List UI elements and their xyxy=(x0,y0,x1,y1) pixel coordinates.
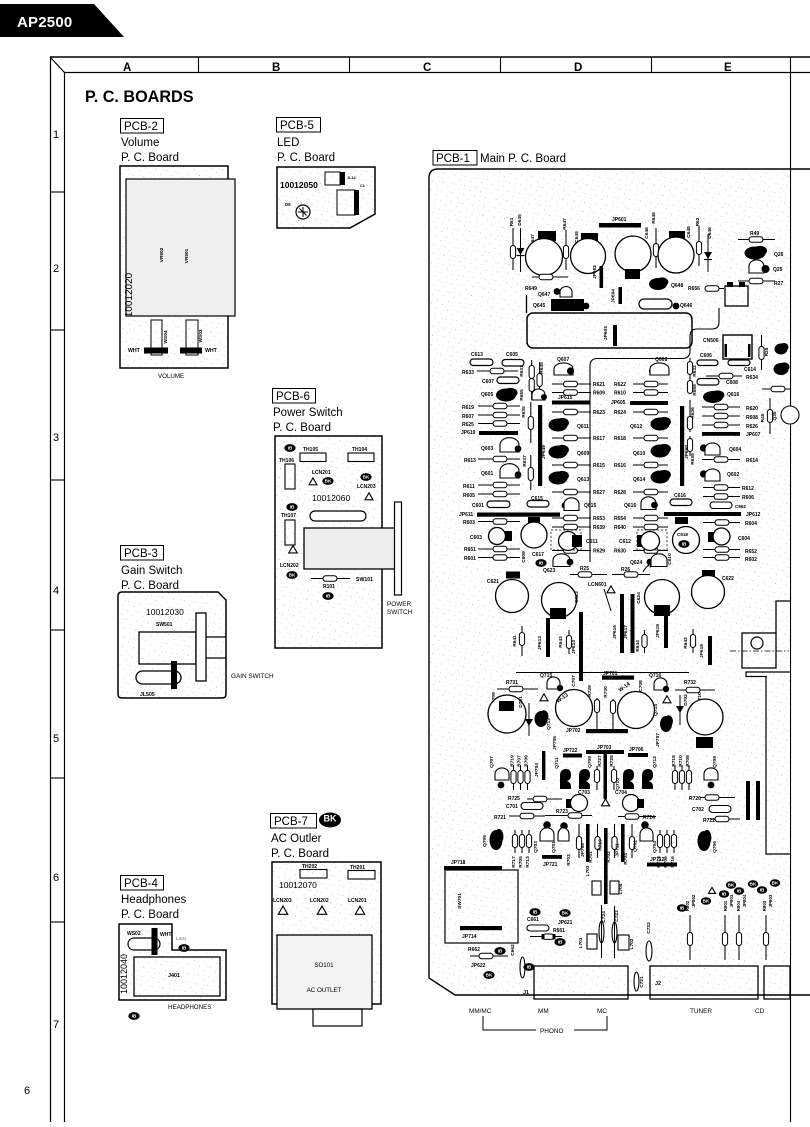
svg-text:1: 1 xyxy=(53,129,59,141)
transistor Q25 dot xyxy=(762,265,770,273)
resistor R608 xyxy=(702,413,740,419)
svg-text:PHONO: PHONO xyxy=(540,1028,563,1035)
triangle W-14 xyxy=(663,696,671,703)
jumper JP602 xyxy=(600,266,604,288)
capacitor C710 tab xyxy=(696,737,713,748)
transistor Q647 body xyxy=(560,287,572,298)
resistor R601 xyxy=(478,555,520,561)
marking IB C617 xyxy=(535,559,546,567)
svg-text:R618: R618 xyxy=(614,436,626,442)
svg-text:Q708: Q708 xyxy=(712,756,718,768)
transistor Q623 dot xyxy=(567,559,574,566)
svg-text:Q707: Q707 xyxy=(489,756,495,768)
svg-text:IB: IB xyxy=(527,965,532,970)
page banner AP2500 xyxy=(0,4,124,37)
svg-text:R729: R729 xyxy=(587,685,593,697)
capacitor C701 xyxy=(521,803,543,810)
svg-text:6: 6 xyxy=(53,872,59,884)
capacitor C609 tab xyxy=(528,517,540,524)
PCB-7 label box xyxy=(271,814,317,829)
resistor R603 xyxy=(478,519,520,525)
svg-text:Q712: Q712 xyxy=(652,756,658,768)
svg-text:BK: BK xyxy=(703,899,710,904)
resistor R723 xyxy=(545,813,592,819)
svg-text:D: D xyxy=(574,62,582,74)
svg-text:R61: R61 xyxy=(509,217,515,226)
svg-text:Q616: Q616 xyxy=(727,392,739,398)
capacitor C709 xyxy=(488,695,526,733)
svg-text:JP611: JP611 xyxy=(459,512,473,518)
border frame header bottom line xyxy=(64,72,810,74)
resistor R625 xyxy=(478,421,520,427)
column divider tick 2 xyxy=(349,57,351,73)
resistor R25 xyxy=(570,572,607,578)
resistor R612 xyxy=(703,485,740,491)
resistor R719 xyxy=(511,765,516,790)
transistor Q624 dot xyxy=(647,559,654,566)
transistor Q708 dot xyxy=(708,782,715,789)
resistor R717 xyxy=(512,830,517,853)
svg-text:R656: R656 xyxy=(688,286,700,292)
svg-text:R638: R638 xyxy=(690,453,696,465)
svg-text:R647: R647 xyxy=(562,218,568,230)
svg-text:PCB-6: PCB-6 xyxy=(276,391,310,403)
capacitor C623 xyxy=(542,583,577,618)
AC outlet SO101 body xyxy=(277,935,372,1009)
svg-text:JP605: JP605 xyxy=(611,400,626,406)
svg-text:R633: R633 xyxy=(462,370,474,376)
jumper JP703 xyxy=(586,750,624,754)
svg-text:L704: L704 xyxy=(618,883,624,894)
connector J1 body xyxy=(534,966,628,999)
resistor R28 xyxy=(759,335,764,370)
svg-text:10012060: 10012060 xyxy=(312,493,350,503)
jumper JP718 xyxy=(444,866,502,870)
thermistor TH104 body xyxy=(348,453,374,462)
resistor R710b xyxy=(595,824,600,858)
svg-text:R723: R723 xyxy=(556,809,568,815)
jumper JP712 xyxy=(647,863,677,867)
thermistor TH202 body xyxy=(300,870,327,879)
svg-text:6: 6 xyxy=(24,1085,30,1097)
svg-text:C601: C601 xyxy=(472,503,484,509)
resistor R645 xyxy=(537,362,542,395)
svg-text:P. C. Board: P. C. Board xyxy=(121,580,179,592)
transistor Q704 body xyxy=(640,828,653,841)
connector JL505 black bar xyxy=(171,661,177,689)
center vertical trace xyxy=(590,308,719,562)
svg-text:R625: R625 xyxy=(462,422,474,428)
svg-text:R615: R615 xyxy=(593,463,605,469)
resistor top mid xyxy=(532,274,568,280)
PHONO bracket xyxy=(483,1016,607,1030)
transformer W-14 xyxy=(618,692,655,729)
svg-text:LCN201: LCN201 xyxy=(348,898,367,904)
transistor Q616c body xyxy=(641,497,656,510)
resistor R614 xyxy=(702,457,740,463)
PCB-6 board outline xyxy=(275,436,382,648)
svg-text:10012020: 10012020 xyxy=(124,272,135,317)
svg-text:10012030: 10012030 xyxy=(146,607,184,617)
svg-text:R619: R619 xyxy=(462,405,474,411)
marking BK LCN202 xyxy=(286,571,297,579)
marking BK PCB-7 xyxy=(319,813,341,828)
transistor Q716 dot xyxy=(663,686,669,692)
resistor R638 xyxy=(687,436,692,456)
resistor R633 xyxy=(477,368,518,374)
svg-text:TUNER: TUNER xyxy=(690,1008,712,1015)
resistor R714 xyxy=(657,830,662,853)
capacitor C604 xyxy=(713,528,730,545)
svg-text:R707: R707 xyxy=(517,755,523,767)
svg-text:C608: C608 xyxy=(726,380,738,386)
svg-text:Q607: Q607 xyxy=(557,357,569,363)
svg-text:5: 5 xyxy=(53,733,59,745)
switch slot xyxy=(310,511,366,521)
svg-text:JP702: JP702 xyxy=(566,728,581,734)
resistor R636 xyxy=(687,400,692,432)
svg-text:C613: C613 xyxy=(471,352,483,358)
svg-text:E: E xyxy=(724,62,732,74)
svg-text:TH106: TH106 xyxy=(279,458,294,464)
svg-text:GAIN SWITCH: GAIN SWITCH xyxy=(231,673,274,680)
jumper JP660 xyxy=(680,406,684,486)
triangle W-13 xyxy=(540,694,548,701)
svg-text:JP612: JP612 xyxy=(746,512,761,518)
resistor R617 xyxy=(552,435,591,441)
capacitor C723 wire xyxy=(614,906,616,958)
svg-text:Q614: Q614 xyxy=(633,477,645,483)
border frame outer top line xyxy=(50,56,810,58)
transistor Q701 body xyxy=(558,828,569,841)
marking BK cluster 4 xyxy=(726,881,736,888)
svg-text:R639: R639 xyxy=(593,525,605,531)
svg-text:R661: R661 xyxy=(553,928,565,934)
svg-text:R651: R651 xyxy=(464,547,476,553)
resistor R651 xyxy=(478,546,520,552)
svg-text:JP615: JP615 xyxy=(558,395,573,401)
svg-text:IB: IB xyxy=(760,888,765,893)
transistor Q615 body xyxy=(564,498,579,511)
svg-text:P. C. Board: P. C. Board xyxy=(277,152,335,164)
svg-text:R621: R621 xyxy=(593,382,605,388)
svg-text:C622: C622 xyxy=(722,576,734,582)
svg-text:Q611: Q611 xyxy=(577,424,589,430)
svg-text:SW101: SW101 xyxy=(356,577,373,583)
transistor Q709 body xyxy=(579,769,590,789)
capacitor C624 xyxy=(645,580,680,615)
svg-text:IB: IB xyxy=(539,561,544,566)
svg-text:Q623: Q623 xyxy=(543,568,555,574)
connector LCN201 triangle xyxy=(309,478,317,485)
svg-text:Q703: Q703 xyxy=(533,841,539,853)
capacitor C608 xyxy=(697,379,719,386)
svg-text:LCN201: LCN201 xyxy=(312,470,331,476)
svg-text:R728: R728 xyxy=(609,755,615,767)
transistor Q717 xyxy=(660,715,673,732)
capacitor C702 xyxy=(709,806,731,813)
svg-text:R630: R630 xyxy=(614,549,626,555)
connector JL505 body xyxy=(136,671,181,684)
switch SW701 outline xyxy=(445,870,518,943)
jack J401 body xyxy=(134,957,220,996)
svg-text:R641: R641 xyxy=(512,635,518,647)
row divider tick 5 xyxy=(50,777,65,779)
resistor R652 xyxy=(703,547,740,553)
capacitor C607 xyxy=(497,377,519,384)
svg-text:3: 3 xyxy=(53,432,59,444)
svg-text:R654: R654 xyxy=(614,516,626,522)
connector CN506 outer xyxy=(723,335,752,359)
svg-text:R616: R616 xyxy=(614,463,626,469)
capacitor C703 xyxy=(571,795,588,812)
svg-text:R634: R634 xyxy=(746,375,758,381)
transistor Q645 body xyxy=(551,299,584,311)
connector WS03 body xyxy=(186,320,198,355)
svg-text:VR502: VR502 xyxy=(159,247,165,262)
marking IB C618 xyxy=(678,540,689,548)
svg-text:R653: R653 xyxy=(593,516,605,522)
resistor R641 xyxy=(519,626,524,656)
svg-text:PCB-5: PCB-5 xyxy=(280,120,314,132)
resistor R602 xyxy=(703,555,740,561)
transistor Q617 dot xyxy=(541,394,547,400)
svg-text:L401: L401 xyxy=(176,936,187,941)
inductor L703 body xyxy=(592,881,601,895)
resistor R662 xyxy=(470,953,508,959)
svg-text:Q603: Q603 xyxy=(481,446,493,452)
svg-text:SW701: SW701 xyxy=(457,893,463,909)
resistor R639 xyxy=(552,524,591,530)
svg-text:C624: C624 xyxy=(636,592,642,604)
resistor R27 xyxy=(738,278,775,284)
capacitor C611 xyxy=(559,532,578,551)
resistor R607 xyxy=(478,412,520,418)
capacitor C645 tab xyxy=(581,233,598,243)
main board face xyxy=(431,171,791,994)
transistor Q707 body xyxy=(495,768,509,780)
svg-text:WHT: WHT xyxy=(205,348,218,354)
LED D9 symbol xyxy=(296,205,310,219)
diode D701 xyxy=(525,703,533,736)
svg-text:R649: R649 xyxy=(525,286,537,292)
svg-text:C708: C708 xyxy=(638,680,644,692)
svg-text:R643: R643 xyxy=(558,636,564,648)
dashed outline C612 xyxy=(637,530,667,550)
svg-text:R731: R731 xyxy=(506,680,518,686)
svg-text:Q648: Q648 xyxy=(671,283,683,289)
connector WS04 black bar xyxy=(144,348,168,354)
marking IB C662b xyxy=(523,963,534,971)
svg-text:R724: R724 xyxy=(643,815,655,821)
svg-text:JP705: JP705 xyxy=(552,736,558,750)
transistor Q715 body xyxy=(547,677,560,689)
column divider tick 4 xyxy=(651,57,653,73)
svg-text:Q702: Q702 xyxy=(633,840,639,852)
svg-text:D645: D645 xyxy=(517,214,523,226)
svg-text:LCN202: LCN202 xyxy=(310,898,329,904)
svg-text:C611: C611 xyxy=(586,539,598,545)
svg-text:C662: C662 xyxy=(735,504,746,509)
heatsink mounting hole xyxy=(751,637,763,649)
marking IB C661 xyxy=(529,908,540,916)
svg-text:Q602: Q602 xyxy=(727,472,739,478)
resistor R605 xyxy=(478,491,520,497)
svg-text:R628: R628 xyxy=(614,490,626,496)
capacitor C646 xyxy=(615,236,651,272)
connector WS03 black bar xyxy=(180,348,202,354)
svg-text:R623: R623 xyxy=(593,410,605,416)
svg-text:L701: L701 xyxy=(578,937,584,948)
svg-text:10012070: 10012070 xyxy=(279,880,317,890)
capacitor C709 tab xyxy=(499,701,514,711)
marking BK LCN203 xyxy=(360,473,371,481)
svg-text:JP621: JP621 xyxy=(558,920,573,926)
power bar 2 xyxy=(756,781,760,820)
svg-text:D702: D702 xyxy=(683,694,689,706)
svg-text:C1: C1 xyxy=(360,184,365,188)
svg-text:C701: C701 xyxy=(506,804,518,810)
diode D645 xyxy=(517,228,525,272)
svg-text:VR501: VR501 xyxy=(184,248,190,263)
svg-text:Q705: Q705 xyxy=(482,835,488,847)
svg-text:C606: C606 xyxy=(700,353,712,359)
transistor Q608 body xyxy=(650,363,669,375)
svg-text:BK: BK xyxy=(363,475,370,480)
transistor Q713 xyxy=(535,710,549,727)
svg-text:R644: R644 xyxy=(635,640,641,652)
resistor R604 xyxy=(703,520,740,526)
svg-text:Q711: Q711 xyxy=(554,757,560,769)
svg-text:C662: C662 xyxy=(510,944,516,956)
svg-text:R602: R602 xyxy=(745,557,757,563)
svg-text:JP708: JP708 xyxy=(580,843,586,857)
resistor R732 xyxy=(675,687,715,693)
capacitor C612 xyxy=(641,532,660,551)
svg-text:R605: R605 xyxy=(463,493,475,499)
resistor R708 xyxy=(686,765,691,790)
jumper JP704 xyxy=(542,751,545,780)
svg-text:JP613: JP613 xyxy=(537,636,543,650)
capacitor C648 tab xyxy=(669,231,685,241)
LCN203 triangle xyxy=(278,906,288,914)
svg-text:J1: J1 xyxy=(523,990,529,996)
resistor Q702r xyxy=(629,824,634,858)
capacitor C724 v xyxy=(599,921,604,943)
svg-text:PCB-7: PCB-7 xyxy=(274,816,308,828)
resistor R656 xyxy=(705,286,724,292)
resistor R622 xyxy=(633,381,668,387)
svg-text:AC OUTLET: AC OUTLET xyxy=(307,987,342,994)
triangle center xyxy=(602,799,610,806)
transistor Q607 dot xyxy=(567,367,574,374)
transistor Q604 body xyxy=(705,443,720,455)
svg-text:LCN203: LCN203 xyxy=(357,484,376,490)
relay RY601 body xyxy=(639,299,672,309)
resistor R730 xyxy=(610,699,615,729)
capacitor C704 xyxy=(623,795,640,812)
transformer W-13 xyxy=(556,690,593,727)
svg-text:TH104: TH104 xyxy=(352,447,367,453)
PCB-6 label box xyxy=(273,389,316,404)
transistor Q604 dot xyxy=(700,444,707,451)
resistor R61 xyxy=(510,228,515,270)
svg-text:MM/MC: MM/MC xyxy=(469,1008,492,1015)
capacitor C647 tab xyxy=(538,231,556,241)
svg-text:R640: R640 xyxy=(614,525,626,531)
svg-text:J2: J2 xyxy=(655,981,661,987)
jumper JP601 xyxy=(599,223,641,228)
svg-text:R604: R604 xyxy=(745,521,757,527)
capacitor C601 xyxy=(487,501,510,508)
jumper JP721 xyxy=(542,855,562,859)
PCB-5 label box xyxy=(277,118,321,133)
svg-text:C648: C648 xyxy=(686,226,692,238)
resistor R613 xyxy=(478,456,520,462)
svg-text:C617: C617 xyxy=(532,552,544,558)
resistor R620 xyxy=(702,404,740,410)
svg-text:4: 4 xyxy=(53,585,59,597)
PCB-2 board outline xyxy=(120,166,228,368)
svg-text:R62: R62 xyxy=(695,217,701,226)
PCB-4 board outline xyxy=(119,924,226,1000)
resistor R637 xyxy=(528,455,533,490)
resistor R648 xyxy=(653,228,658,268)
svg-text:PCB-4: PCB-4 xyxy=(124,878,158,890)
power switch actuator xyxy=(304,528,396,569)
connector WS04 body xyxy=(151,320,162,355)
dashed outline C611 xyxy=(551,530,581,550)
transistor Q36 circle xyxy=(781,406,799,424)
transistor Q34 xyxy=(774,362,790,375)
board edge step right xyxy=(776,601,790,633)
connector J3 body xyxy=(764,966,790,999)
transistor Q613 xyxy=(549,471,569,485)
marking IB top left xyxy=(284,444,295,452)
PCB-2 label box xyxy=(121,119,164,134)
transistor Q602 body xyxy=(705,469,720,481)
svg-text:Q612: Q612 xyxy=(630,424,642,430)
svg-text:C704: C704 xyxy=(615,790,627,796)
svg-text:Q647: Q647 xyxy=(538,292,550,298)
svg-text:JP610: JP610 xyxy=(461,430,476,436)
bar center upper xyxy=(604,754,608,799)
marking IB cluster 5 xyxy=(734,887,744,894)
resistor R642 xyxy=(690,629,695,653)
svg-text:IB: IB xyxy=(326,594,331,599)
svg-text:Headphones: Headphones xyxy=(121,894,186,906)
svg-text:IB: IB xyxy=(290,505,295,510)
jumper JP716 xyxy=(460,926,502,930)
capacitor bottom row 3 xyxy=(736,933,741,946)
capacitor C662 xyxy=(710,502,732,509)
power bar 1 xyxy=(746,781,750,820)
capacitor C721 v xyxy=(634,972,639,991)
LCN201 triangle xyxy=(355,906,365,914)
connector C1 black bar xyxy=(354,190,359,215)
LCN202 triangle xyxy=(317,906,327,914)
transistor Q611 xyxy=(549,418,569,432)
capacitor C661 xyxy=(527,925,549,931)
marking IB bottom xyxy=(128,1012,139,1020)
svg-text:Q710: Q710 xyxy=(615,778,621,790)
svg-text:IB: IB xyxy=(288,446,293,451)
capacitor C621 tab xyxy=(506,572,520,579)
svg-text:R607: R607 xyxy=(462,414,474,420)
svg-text:TH105: TH105 xyxy=(303,447,318,453)
capacitor bottom row 3 wire xyxy=(738,915,740,960)
connector J2 body xyxy=(650,966,758,999)
